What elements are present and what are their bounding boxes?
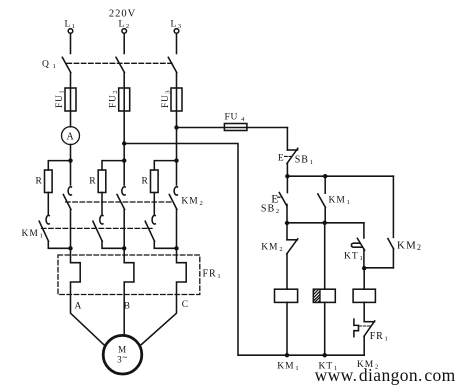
svg-text:www.diangon.com: www.diangon.com [315, 365, 455, 385]
svg-text:C: C [182, 300, 189, 310]
svg-text:E: E [278, 153, 285, 163]
svg-text:R: R [89, 177, 96, 187]
svg-text:A: A [75, 302, 83, 312]
svg-text:B: B [124, 302, 131, 312]
svg-text:A: A [67, 131, 75, 142]
svg-text:R: R [142, 177, 149, 187]
svg-text:220V: 220V [109, 9, 136, 20]
svg-text:R: R [36, 177, 43, 187]
